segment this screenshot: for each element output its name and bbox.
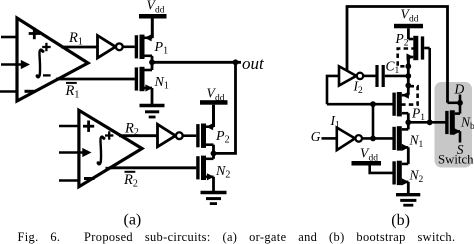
U2 integrator symbol [97,137,106,165]
wire INV1 to P1 gate [123,45,135,48]
wire U2 input top [59,125,79,128]
U1 minus input label [25,90,36,93]
wire R1 [61,46,98,49]
svg-text:P1: P1 [411,106,425,124]
wire out vertical to stage 2 [214,62,236,153]
svg-text:(b): (b) [391,212,410,229]
op-amp U1 [17,18,88,101]
node boot gate [405,119,411,125]
svg-text:R1: R1 [65,83,80,101]
wire U1 input top [1,36,17,39]
Vdd supply 2 [200,86,228,128]
node out junction at P1/N1 [149,59,155,65]
transistor N2b (NMOS) [394,161,409,195]
svg-text:I1: I1 [330,113,341,131]
svg-text:N1: N1 [409,132,424,150]
wire G input [322,137,338,140]
svg-text:Switch: Switch [438,153,474,167]
wire R2bar [109,166,196,169]
switch shading box [435,82,473,168]
U2 integrator plus [105,131,113,139]
svg-text:R2: R2 [123,172,138,190]
transistor N1 (NMOS) [136,62,152,105]
svg-text:P1: P1 [154,40,169,57]
svg-text:N2: N2 [409,167,424,185]
U1 plus input label [29,28,40,39]
svg-text:P2: P2 [395,31,409,49]
svg-text:D: D [454,82,465,97]
node C1 top [405,73,411,79]
svg-text:Fig. 6. Proposed sub-circuits: Fig. 6. Proposed sub-circuits: (a) or-ga… [18,230,456,244]
wire U1 input mid [1,60,30,69]
wire I2 input [327,76,339,104]
wire P2b bulk dashed [398,49,416,67]
wire boot gate bus [408,119,447,125]
Vdd supply b small [352,146,393,173]
wire I1 output [362,136,393,142]
svg-text:N1: N1 [154,75,169,92]
wire out horizontal [152,59,241,65]
transistor P2 (PMOS) [198,123,214,153]
wire bootstrap top loop [347,7,448,103]
svg-text:dd: dd [409,15,419,25]
transistor Nb (NMOS switch) [447,110,461,142]
transistor P2b (PMOS mirrored) [407,36,430,67]
transistor N2 (NMOS) [198,153,214,192]
label R1bar [65,83,80,101]
U1 integrator plus [42,43,50,51]
wire gate bus y104 [327,101,393,107]
transistor N1b (NMOS) [394,122,409,164]
wire node X vertical [372,104,375,138]
node P2/N2 drain junction [211,151,217,157]
label R2bar [123,172,138,190]
inverter I1 [337,128,362,151]
wire U2 input mid [59,148,92,157]
ground b [396,195,420,206]
wire D node [448,95,463,114]
U1 integrator symbol [36,50,45,78]
U2 integrator minus [106,167,114,169]
wire R2 [119,134,158,137]
wire INV2 to P2 gate [183,134,197,137]
ground 1 [140,106,165,118]
transistor P1 (PMOS) [136,34,152,62]
wire I2 output to C1 [363,75,376,78]
wire U1 input bottom [0,90,17,93]
svg-text:I2: I2 [353,79,364,97]
node P1b source [405,83,411,89]
svg-text:(a): (a) [124,212,142,229]
inverter INV2 [158,124,183,147]
wire P1b bulk dashed [402,86,418,104]
U1 integrator minus [43,74,51,76]
Vdd supply b top [394,7,423,40]
svg-text:N2: N2 [215,164,230,181]
svg-text:P2: P2 [215,129,230,146]
svg-text:R2: R2 [124,120,139,138]
U2 minus input label [84,177,95,180]
Vdd supply 1 [139,0,167,38]
U2 plus input label [83,121,94,132]
wire P2b gate vertical [428,48,431,122]
node boot top [405,63,411,69]
capacitor C1 [375,65,408,87]
transistor P1b (PMOS) [394,92,409,123]
wire U2 input bottom [59,179,79,182]
svg-text:C1: C1 [386,59,400,77]
inverter I2 [339,66,363,85]
svg-text:out: out [242,54,265,73]
inverter INV1 [98,36,123,59]
wire boot vertical [407,57,410,95]
svg-text:R1: R1 [68,30,83,48]
svg-text:G: G [311,129,321,144]
wire R1bar [56,78,135,81]
op-amp U2 [79,110,142,186]
ground 2 [201,193,227,204]
